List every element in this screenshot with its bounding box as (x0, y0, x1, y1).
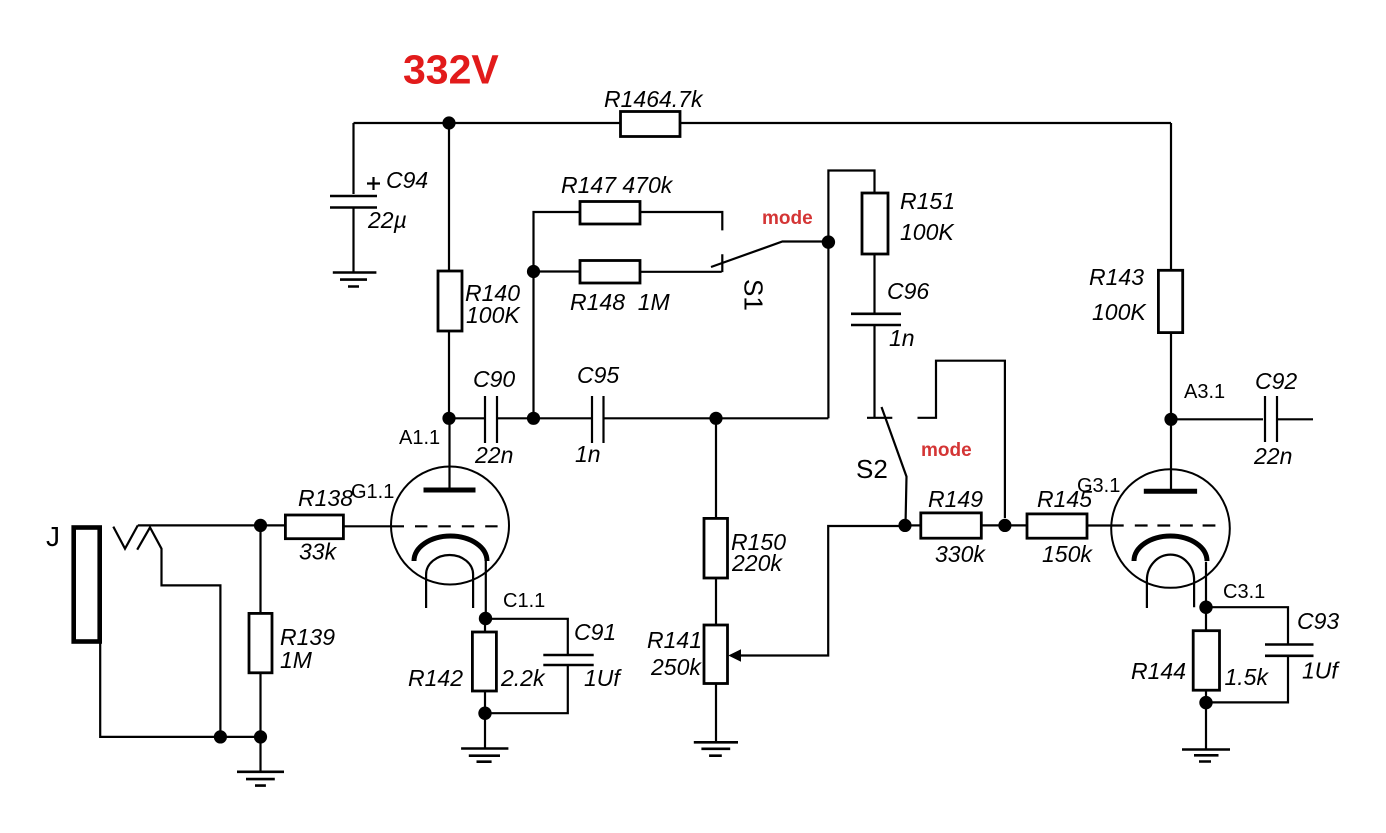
svg-text:1Uf: 1Uf (584, 665, 622, 691)
svg-text:330k: 330k (935, 541, 986, 567)
svg-text:C3.1: C3.1 (1223, 581, 1265, 603)
svg-text:mode: mode (762, 208, 813, 229)
svg-text:100K: 100K (466, 302, 521, 328)
svg-text:C1.1: C1.1 (503, 590, 545, 612)
svg-text:1n: 1n (575, 441, 601, 467)
svg-text:R141: R141 (647, 627, 702, 653)
svg-text:J: J (46, 521, 60, 552)
svg-text:1n: 1n (889, 325, 915, 351)
svg-text:A3.1: A3.1 (1184, 381, 1225, 403)
svg-text:22n: 22n (1253, 443, 1292, 469)
svg-text:C96: C96 (887, 278, 929, 304)
svg-text:33k: 33k (299, 539, 338, 565)
svg-text:R142: R142 (408, 665, 463, 691)
svg-text:S2: S2 (856, 454, 888, 484)
svg-text:1Uf: 1Uf (1302, 658, 1340, 684)
svg-text:S1: S1 (739, 279, 769, 311)
svg-text:332V: 332V (403, 47, 499, 93)
svg-text:R143: R143 (1089, 264, 1144, 290)
svg-text:R138: R138 (298, 485, 353, 511)
svg-text:1M: 1M (280, 647, 313, 673)
svg-text:A1.1: A1.1 (399, 427, 440, 449)
svg-text:R149: R149 (928, 486, 983, 512)
svg-text:1.5k: 1.5k (1225, 664, 1270, 690)
svg-text:100K: 100K (900, 219, 955, 245)
svg-text:100K: 100K (1092, 299, 1147, 325)
svg-text:R148 1M: R148 1M (570, 289, 671, 315)
svg-text:2.2k: 2.2k (500, 665, 546, 691)
svg-text:R151: R151 (900, 188, 955, 214)
svg-text:C93: C93 (1297, 608, 1339, 634)
svg-text:mode: mode (921, 440, 972, 461)
svg-text:G3.1: G3.1 (1077, 475, 1120, 497)
svg-text:250k: 250k (650, 654, 702, 680)
svg-text:R1464.7k: R1464.7k (604, 86, 704, 112)
svg-text:C95: C95 (577, 362, 619, 388)
svg-text:C92: C92 (1255, 368, 1297, 394)
svg-text:C91: C91 (574, 619, 616, 645)
svg-text:22n: 22n (474, 442, 513, 468)
svg-text:22µ: 22µ (367, 207, 407, 233)
svg-text:C94: C94 (386, 167, 428, 193)
svg-text:150k: 150k (1042, 541, 1093, 567)
svg-text:C90: C90 (473, 366, 515, 392)
svg-text:220k: 220k (731, 550, 783, 576)
svg-text:R144: R144 (1131, 658, 1186, 684)
svg-text:G1.1: G1.1 (351, 481, 394, 503)
svg-text:R147 470k: R147 470k (561, 172, 674, 198)
